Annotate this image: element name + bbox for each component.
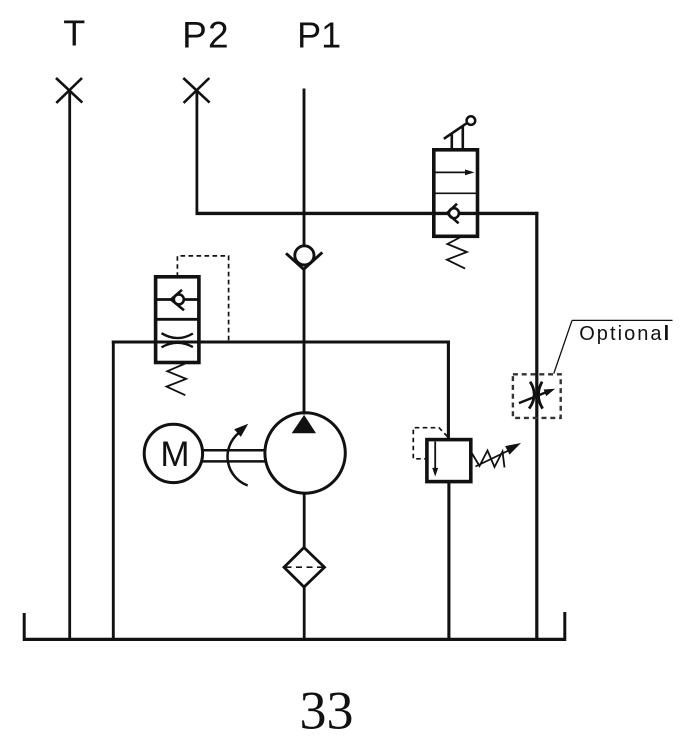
pilot line (dashed): [413, 428, 447, 459]
pilot-operated flow control valve: [156, 256, 229, 395]
svg-text:Optional: Optional: [579, 323, 671, 345]
valve return spring: [447, 237, 467, 269]
lever actuator: [450, 134, 453, 150]
pilot line (dashed): [177, 256, 228, 340]
position divider: [156, 318, 199, 321]
plug X on port T: [56, 78, 82, 103]
wire relief valve supply line: [447, 341, 450, 442]
wire manifold top line: [112, 340, 450, 343]
wire T line to tank: [68, 89, 71, 641]
wire drop to optional throttle and tank: [535, 212, 538, 641]
wire manifold left line to tank: [112, 341, 115, 642]
adjustment spring: [472, 451, 505, 468]
lever-operated 2-way valve: [434, 116, 478, 268]
svg-text:33: 33: [300, 681, 354, 741]
label Optional with leader line: [554, 320, 673, 373]
check symbol in top position: [174, 294, 184, 304]
svg-text:P2: P2: [182, 14, 230, 55]
svg-text:P1: P1: [297, 15, 341, 56]
pump: [265, 413, 345, 493]
wire P2 to lever valve horizontal: [196, 212, 539, 215]
rotation direction arrow: [228, 424, 249, 486]
wire filter to tank: [303, 587, 306, 640]
valve spring: [167, 364, 187, 396]
wire relief valve to tank: [447, 481, 450, 642]
valve body: [434, 150, 478, 237]
flow path in top position: [156, 298, 199, 301]
optional throttle valve (dashed enclosure): [513, 374, 561, 418]
relief valve: [413, 428, 521, 482]
check valve on P1 line: [286, 246, 322, 270]
position divider: [434, 192, 478, 194]
wire pump outlet to filter: [303, 493, 306, 549]
reservoir tank: [24, 612, 565, 641]
flow arrow in top position: [435, 171, 468, 173]
wire P1 lower vertical to pump: [303, 269, 306, 415]
plug X on port P2: [183, 78, 209, 103]
wire P2 vertical: [195, 90, 198, 215]
wire P1 upper vertical: [303, 89, 306, 247]
valve body: [156, 277, 199, 363]
motor M: [144, 424, 202, 482]
internal flow arrow: [434, 442, 436, 469]
drive shaft: [203, 450, 265, 461]
svg-text:M: M: [160, 435, 189, 474]
check symbol in bottom position: [449, 208, 459, 218]
adjustability arrow: [476, 450, 510, 466]
svg-text:T: T: [63, 13, 85, 54]
valve body: [427, 440, 471, 482]
restrictor arcs in bottom position: [162, 333, 193, 338]
filter: [284, 548, 325, 588]
